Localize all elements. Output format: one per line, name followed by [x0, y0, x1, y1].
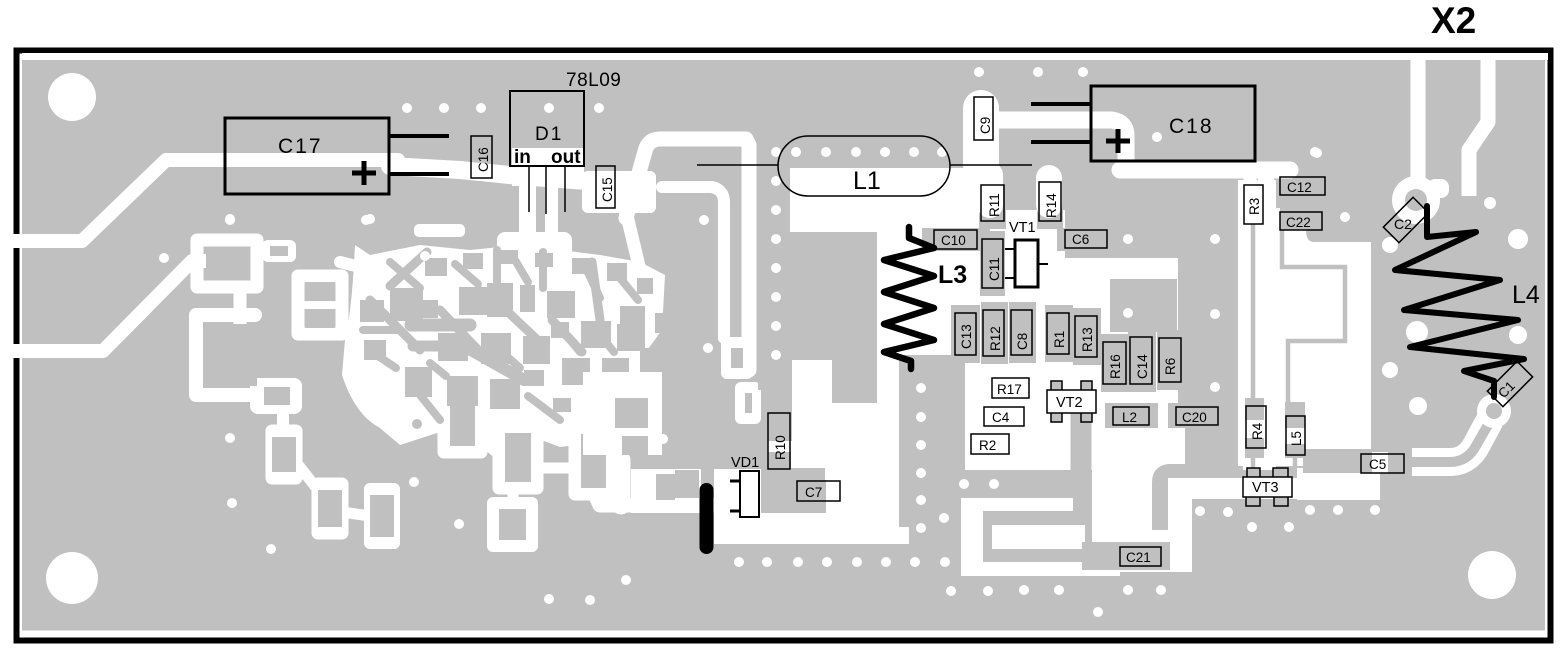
svg-text:C10: C10 — [941, 233, 966, 248]
white copper pour component cluster — [877, 210, 1276, 470]
wire link E-bottom ring — [508, 488, 519, 503]
via row y562 — [734, 557, 744, 567]
svg-text:78L09: 78L09 — [566, 70, 621, 91]
wire thin gray trace R3-R4 — [1251, 224, 1256, 402]
wire trace C5 to antenna pad with halo — [1412, 420, 1490, 462]
pad strip R13 — [1073, 308, 1101, 365]
svg-text:L3: L3 — [938, 261, 967, 289]
white copper maze pour upper extension — [497, 232, 572, 262]
wire lower left feed trace into maze — [13, 261, 232, 351]
pad strip C8 — [1009, 302, 1036, 363]
mounting hole top-left — [48, 73, 96, 121]
via column x776 — [771, 147, 781, 157]
inductor L1 capsule — [697, 136, 1032, 196]
wire white channel top right 1 — [1411, 57, 1426, 185]
pad cores of trace end rings — [731, 348, 743, 368]
node ring pad F lower maze — [575, 427, 611, 494]
resistor R12 — [983, 310, 1004, 356]
pad strip behind R4 — [1245, 398, 1264, 420]
gray channels through maze — [370, 300, 420, 350]
copper strip behind C21 — [1082, 542, 1170, 570]
svg-text:X2: X2 — [1431, 0, 1476, 41]
capacitor C22 — [1280, 212, 1322, 230]
white blob around C9 — [963, 108, 999, 165]
pad cores bottom-left rings — [272, 437, 296, 472]
inductor L2 — [1113, 407, 1149, 425]
resistor R2 — [971, 434, 1009, 454]
wire white strip to C12 C22 pads — [1258, 178, 1274, 228]
capacitor C13 — [955, 313, 976, 355]
white copper pour center: below L1 capsule — [788, 168, 954, 232]
node antenna pad ring right — [1477, 394, 1511, 428]
node small pad strip above maze — [262, 240, 296, 262]
gray pad strips behind small components — [922, 90, 1226, 428]
svg-text:C20: C20 — [1182, 410, 1207, 425]
scattered vias center — [939, 513, 949, 523]
svg-text:C22: C22 — [1286, 215, 1311, 230]
resistor R11 — [981, 185, 1004, 221]
pad core below hook — [264, 387, 290, 405]
capacitor C18 — [1031, 86, 1255, 161]
svg-text:C11: C11 — [987, 257, 1002, 281]
gray pocket in tangle bottom right — [615, 398, 648, 428]
capacitor C7 — [797, 481, 840, 501]
svg-text:C7: C7 — [805, 485, 822, 500]
svg-text:C9: C9 — [978, 117, 993, 134]
wire D1 pin channel left — [519, 180, 536, 248]
wire stub from ring to pads — [234, 287, 247, 330]
svg-text:R6: R6 — [1163, 358, 1178, 375]
svg-text:C14: C14 — [1135, 354, 1150, 379]
wire white band below C18 — [1120, 162, 1290, 179]
vias far right region — [1310, 147, 1320, 157]
svg-text:R3: R3 — [1247, 198, 1262, 215]
wire channel to R14 — [1036, 178, 1062, 205]
wire white connector pocket left of VD1 — [631, 469, 701, 513]
white copper central maze pour — [342, 245, 665, 447]
pad strip C13 — [951, 305, 980, 363]
capacitor C1 rotated — [1487, 361, 1532, 406]
wire white top arm — [983, 498, 1073, 511]
node ring pad end of trace A — [741, 388, 755, 418]
via row in L1 capsule — [791, 147, 801, 157]
node ring pad C bottom-left — [370, 489, 394, 543]
wire link A-B — [296, 462, 318, 490]
gray below cluster — [930, 470, 1276, 562]
vias right of C18 — [1152, 132, 1162, 142]
transistor VT3 — [1243, 468, 1292, 506]
svg-text:C2: C2 — [1394, 216, 1412, 232]
node pad ring top right — [1392, 176, 1440, 224]
white slice in C5 — [1372, 452, 1388, 473]
capacitor C14 — [1130, 337, 1152, 384]
wire gray trace C22 to L5 — [1253, 224, 1345, 470]
svg-text:L5: L5 — [1289, 431, 1304, 446]
resistor R16 — [1103, 342, 1126, 384]
wire link B-C — [342, 512, 370, 516]
white copper pour cluster upper right corner — [930, 168, 1000, 228]
svg-text:C4: C4 — [992, 410, 1010, 425]
capacitor C20 — [1176, 407, 1218, 425]
white patch C22 left pad — [1268, 208, 1280, 232]
transistor VT2 — [1047, 381, 1096, 422]
pad strip C20 — [1168, 403, 1226, 428]
vias in gray blocks right cluster — [1123, 234, 1133, 244]
extra pad cores central tangle texture — [360, 300, 384, 322]
wire gray trace left of VT3 — [1160, 472, 1243, 530]
node ring pad D lower maze — [444, 391, 481, 452]
wire link E-F — [537, 463, 575, 474]
node ring pad bottom-center — [493, 503, 532, 546]
wire trace from C9 to C18 lower band — [981, 57, 1492, 471]
capacitor C2 rotated — [1383, 197, 1428, 242]
svg-text:R14: R14 — [1044, 193, 1059, 218]
wire maze right edge to hook — [628, 220, 640, 270]
copper block below capsule — [790, 232, 877, 355]
svg-text:R12: R12 — [988, 326, 1003, 351]
resistor R14 — [1039, 182, 1061, 221]
white stub above staircase — [583, 372, 662, 455]
pad strip behind L5 — [1285, 402, 1305, 428]
pad in C5 right end — [1386, 456, 1404, 471]
wire white slot in snake — [992, 525, 1085, 549]
svg-text:R16: R16 — [1108, 354, 1123, 379]
node pad pair column — [298, 276, 342, 334]
wire white vertical to bottom band — [961, 498, 983, 576]
copper snake block — [977, 511, 1092, 564]
wire white band under VT3 — [1168, 478, 1380, 499]
resistor R6 — [1159, 338, 1181, 382]
pad core in connector pocket — [656, 474, 675, 500]
wire maze top link — [340, 262, 380, 272]
resistor R13 — [1075, 316, 1097, 357]
wire staircase to VD1 area — [593, 490, 725, 505]
pad cores in pad pair column — [305, 282, 335, 299]
svg-text:C18: C18 — [1169, 115, 1214, 138]
wire hook trace to center vertical — [626, 139, 749, 370]
wire link D-E — [481, 440, 499, 455]
pad strip R6 — [1157, 330, 1185, 390]
white copper tab above maze — [414, 224, 465, 237]
svg-text:C13: C13 — [959, 324, 974, 349]
resistor R3 — [1244, 185, 1263, 224]
via row y108 left of D1 — [402, 103, 412, 113]
mounting hole bottom-left — [46, 552, 98, 604]
svg-text:VD1: VD1 — [731, 455, 759, 471]
white copper pour around C15 — [582, 171, 656, 213]
svg-text:R11: R11 — [987, 193, 1002, 217]
wire thin gray trace R4-VT3 — [1251, 446, 1256, 470]
diode VD1 — [730, 455, 759, 517]
capacitor C10 — [934, 230, 977, 249]
gray islands carving the maze — [205, 248, 752, 540]
node pad with ring below hook — [250, 378, 302, 414]
pad core in top-left ring — [206, 248, 250, 280]
svg-text:R2: R2 — [979, 438, 996, 453]
wire D1 pin channel right — [545, 180, 558, 250]
via row y591 — [946, 586, 956, 596]
svg-text:VT1: VT1 — [1009, 220, 1036, 236]
wire feed trace under C16 C15 — [390, 166, 600, 182]
wire white channel top right 2 — [1469, 57, 1488, 196]
svg-text:R10: R10 — [773, 435, 788, 460]
wire channel to R11 — [977, 175, 1003, 205]
wire upper left feed trace to C17 — [13, 160, 398, 241]
white via dots center columns and rows — [225, 67, 1528, 617]
gray structures inside VD1 blob — [761, 403, 826, 513]
svg-text:R1: R1 — [1052, 331, 1067, 348]
capacitor C12 — [1280, 177, 1325, 195]
svg-text:C12: C12 — [1287, 180, 1312, 195]
pad strip R14 — [1037, 174, 1063, 229]
copper block G1 below C18 band — [1065, 178, 1244, 258]
pad strip behind R10 — [766, 403, 791, 432]
svg-text:L1: L1 — [853, 167, 881, 195]
wire hook trace left maze — [196, 315, 255, 395]
pad strip C10 — [922, 228, 990, 251]
white copper block right of snake — [1092, 421, 1192, 572]
capacitor C4 — [984, 407, 1024, 426]
svg-text:C16: C16 — [476, 147, 491, 172]
pad cores lower rings D E F — [450, 397, 475, 446]
gray copper structures inside cluster — [758, 146, 1244, 500]
svg-text:R17: R17 — [997, 382, 1022, 397]
copper snake trace from VT2 down — [1071, 412, 1092, 515]
pad strip R11 — [979, 177, 1006, 229]
capacitor C11 — [982, 239, 1003, 288]
copper band L5 to C5 — [1303, 449, 1372, 473]
copper block G3 tall right — [1178, 258, 1238, 430]
white copper blob around VD1 R10 C7 — [714, 360, 909, 544]
capacitor C17 — [225, 118, 449, 194]
svg-text:in: in — [514, 147, 531, 168]
capacitor C21 — [1120, 547, 1161, 566]
pad strip C11 — [980, 231, 1005, 296]
pad core in hook — [205, 324, 257, 386]
wire white descender to R3 — [1244, 178, 1257, 222]
capacitor C9 — [974, 97, 993, 140]
vias below C17 — [225, 214, 235, 224]
inductor L5 — [1286, 416, 1305, 455]
white copper pour right column band and region above VT3 — [1238, 180, 1371, 466]
pad core ring G — [620, 306, 645, 349]
capacitor C15 — [596, 166, 615, 208]
copper strip with via column x776 — [758, 146, 790, 390]
wire white bottom band center — [983, 562, 1120, 576]
pad cores central tangle — [390, 288, 423, 321]
pad strip R16 — [1101, 334, 1130, 392]
svg-text:C5: C5 — [1369, 457, 1386, 472]
node pad ring top-left maze — [197, 240, 257, 287]
via row top edge — [974, 67, 984, 77]
capacitor C5 — [1361, 454, 1404, 473]
svg-text:R13: R13 — [1080, 327, 1095, 352]
svg-text:C15: C15 — [600, 177, 615, 202]
gray block right of white block — [1185, 421, 1243, 479]
svg-text:VT2: VT2 — [1056, 395, 1083, 411]
gray strip around jumper bar — [675, 470, 699, 498]
svg-text:C6: C6 — [1072, 232, 1089, 247]
transistor VT1 — [1005, 220, 1048, 287]
svg-text:VT3: VT3 — [1252, 480, 1279, 496]
via rows bottom right — [1195, 506, 1205, 516]
copper block G2 — [1110, 279, 1177, 332]
wire link hook-A — [277, 400, 289, 425]
pad strip R1 — [1045, 305, 1073, 362]
node ring pad E lower maze — [499, 427, 537, 488]
svg-text:C17: C17 — [278, 135, 323, 158]
svg-text:C8: C8 — [1015, 333, 1030, 350]
via dot inside maze (gray on white) — [412, 419, 422, 429]
voltage regulator D1 78L09 — [510, 70, 621, 214]
resistor R4 — [1246, 406, 1266, 448]
wire thin gray trace L5-VT3 — [1293, 453, 1298, 468]
via dots left region (white on gray) — [159, 215, 713, 605]
svg-text:C21: C21 — [1126, 550, 1151, 565]
node ring pad A bottom-left — [272, 431, 296, 478]
node ring pad end of trace B — [727, 343, 747, 373]
wire pad pair divider — [298, 301, 342, 309]
pad strip L2 — [1105, 403, 1158, 428]
via column x921 — [916, 383, 926, 393]
svg-text:R4: R4 — [1250, 422, 1265, 440]
copper strip right of L3 white — [899, 355, 965, 500]
svg-text:D1: D1 — [535, 124, 563, 145]
svg-text:L2: L2 — [1122, 410, 1137, 425]
capacitor C8 — [1011, 310, 1032, 355]
white copper pour under D1 pins — [512, 148, 584, 186]
pad strip C14 — [1128, 329, 1156, 392]
capacitor C6 — [1065, 230, 1107, 248]
pad strip C6 — [1057, 228, 1115, 251]
white strip along top border — [22, 53, 1548, 60]
jumper black bar — [700, 490, 714, 547]
capacitor C16 — [471, 136, 492, 178]
svg-text:out: out — [551, 147, 581, 168]
pad strip C9 — [972, 90, 995, 148]
pad strip R12 — [981, 302, 1008, 364]
wire C15 to hook — [612, 196, 628, 214]
resistor R1 — [1047, 313, 1069, 354]
inductor L3 zigzag — [884, 227, 934, 369]
node ring pad B bottom-left — [318, 484, 342, 533]
mounting hole bottom-right — [1468, 551, 1516, 599]
copper block around C7 — [761, 468, 825, 513]
resistor R17 — [992, 378, 1029, 398]
svg-text:L4: L4 — [1512, 281, 1540, 309]
inductor L4 zigzag — [1395, 206, 1524, 397]
resistor R10 — [768, 413, 790, 469]
wire second center vertical trace — [662, 187, 724, 338]
